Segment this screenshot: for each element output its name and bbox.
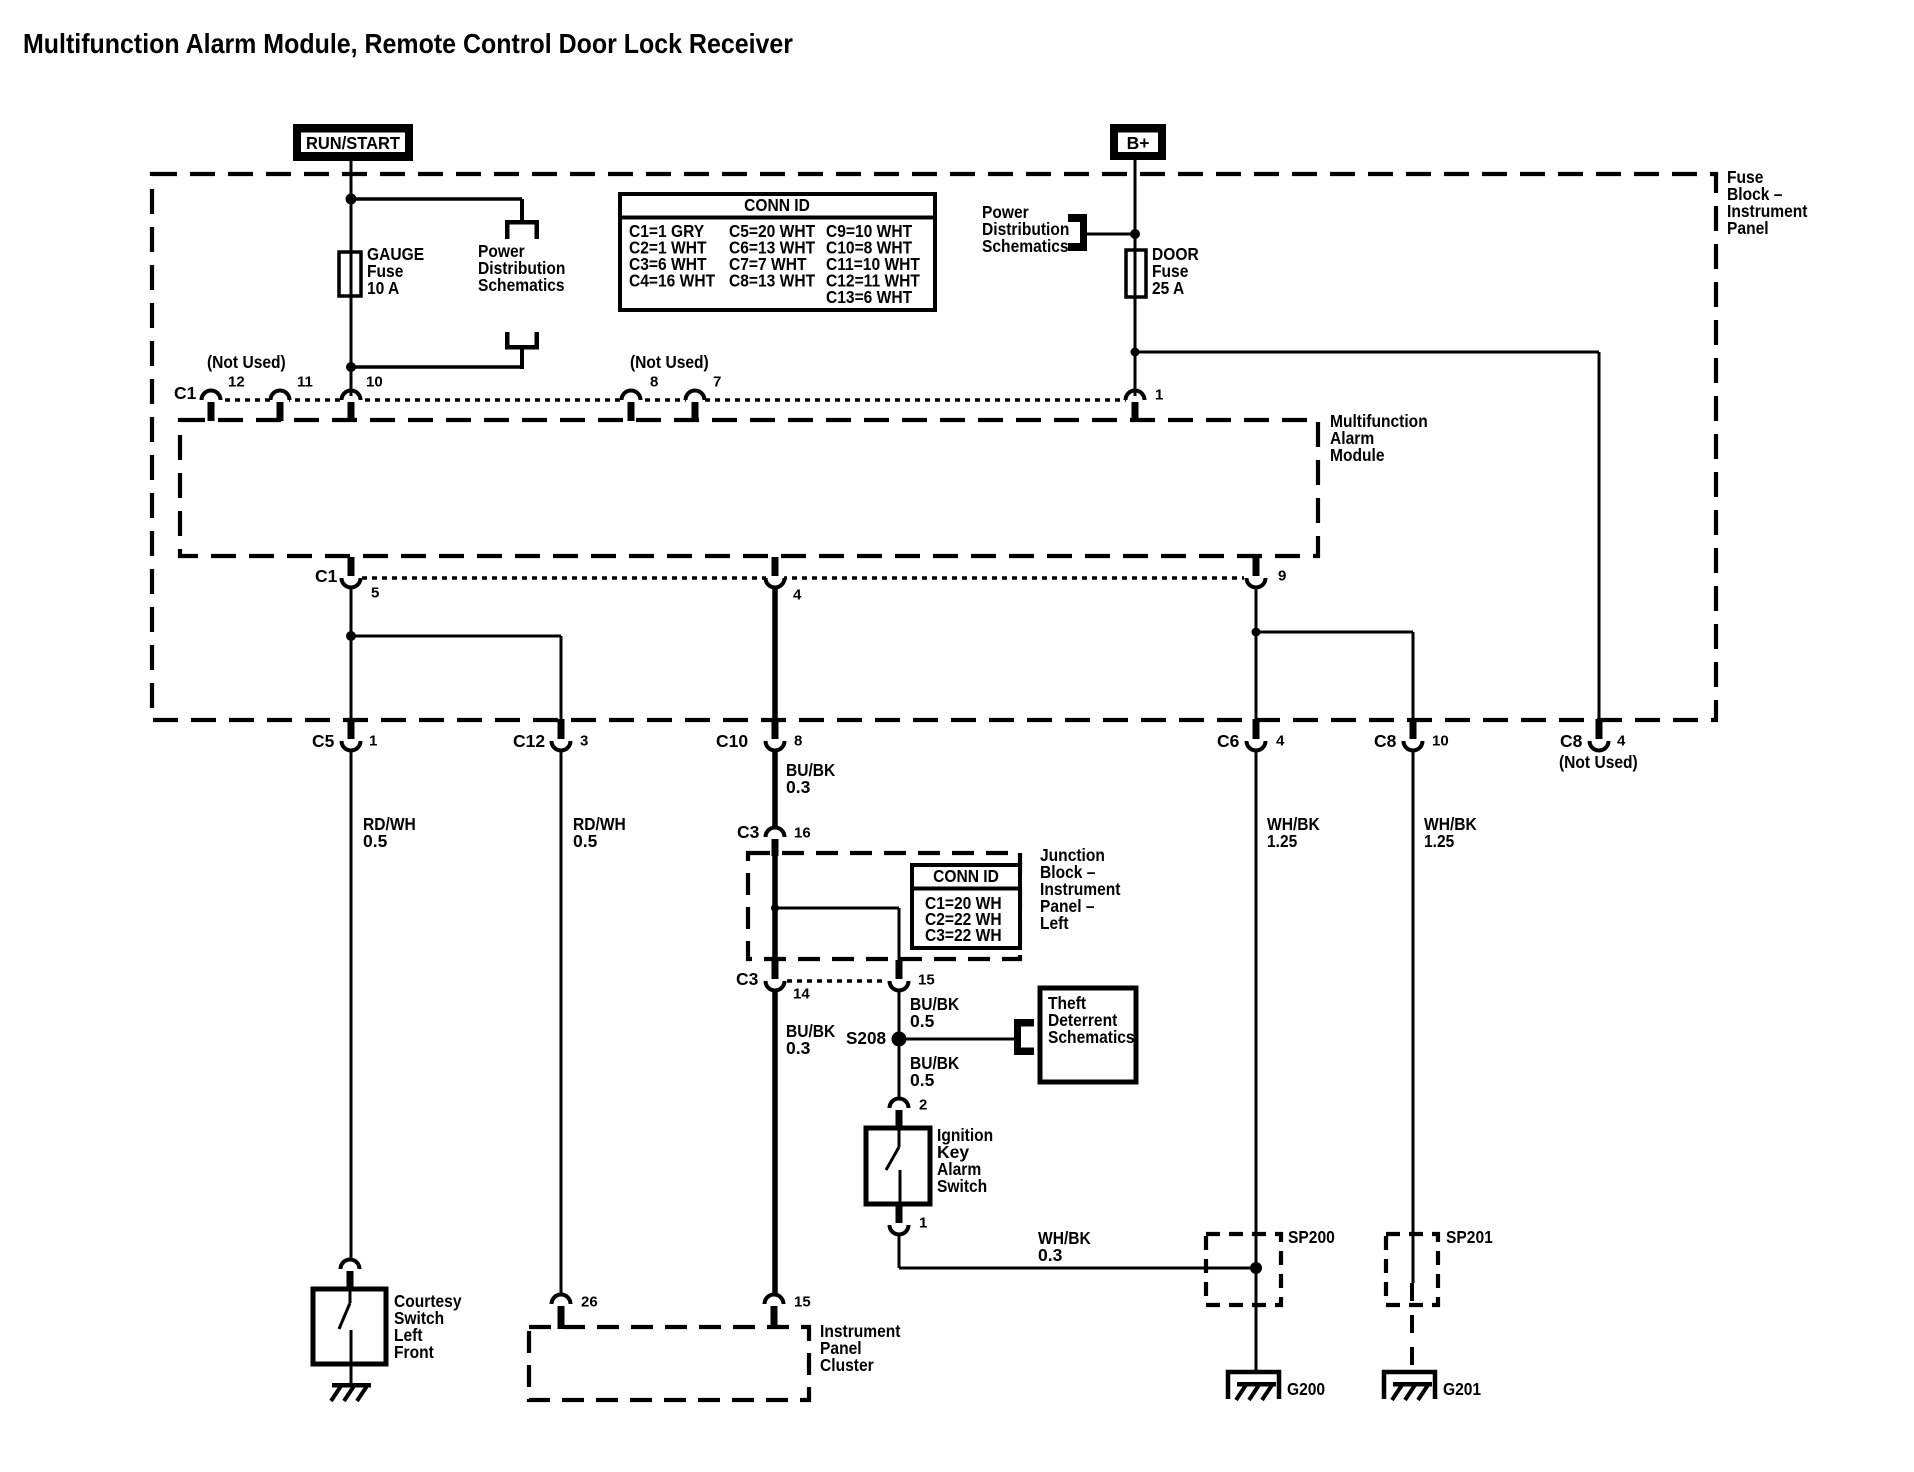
svg-text:1: 1 (1155, 386, 1163, 403)
wire C1-9 down to C6-4 (1255, 587, 1258, 720)
wire C12-3 down to cluster pin 26 (560, 749, 563, 1294)
ground (courtesy switch) (331, 1383, 371, 1401)
svg-text:C8=13 WHT: C8=13 WHT (729, 271, 815, 291)
svg-text:(Not Used): (Not Used) (630, 352, 709, 372)
svg-text:4: 4 (1276, 732, 1285, 749)
connector C8 pin 10 (1374, 719, 1449, 751)
svg-text:10: 10 (1432, 732, 1449, 749)
wire branch to power distribution (top) (351, 199, 524, 221)
ground G200 (1228, 1372, 1279, 1400)
connector C5 pin 1 (312, 719, 377, 751)
svg-text:12: 12 (228, 373, 245, 390)
svg-text:Panel: Panel (1727, 218, 1769, 238)
svg-text:Schematics: Schematics (478, 275, 565, 295)
svg-text:RUN/START: RUN/START (306, 133, 400, 153)
junction node on C1-9 wire (1252, 628, 1261, 637)
svg-text:C6: C6 (1217, 731, 1240, 751)
wire courtesy switch to ground (350, 1364, 353, 1385)
wire label RD/WH 0.5 (C12-3) (573, 814, 626, 851)
instrument panel cluster dashed box (529, 1327, 809, 1400)
label Junction Block - Instrument Panel - Left (1040, 845, 1121, 933)
junction node at gauge fuse bottom branch (346, 362, 356, 372)
label Multifunction Alarm Module (1330, 411, 1428, 465)
wire S208 to theft deterrent schematics (899, 1038, 1016, 1041)
connector C3 pin 15 (890, 960, 935, 991)
connector C1 pin 8 (622, 373, 659, 421)
svg-text:C3: C3 (736, 969, 759, 989)
svg-text:26: 26 (581, 1293, 598, 1310)
svg-text:Front: Front (394, 1342, 434, 1362)
connector C1 pin 5 (342, 557, 380, 601)
svg-text:C1: C1 (174, 383, 197, 403)
svg-text:9: 9 (1278, 567, 1286, 584)
half-connector fork to power distribution schematics (right) (1068, 214, 1087, 251)
fuse GAUGE 10A (339, 252, 361, 296)
wire label WH/BK 1.25 (C6-4) (1267, 814, 1320, 851)
svg-text:15: 15 (794, 1293, 811, 1310)
svg-text:0.3: 0.3 (786, 777, 811, 797)
wire branch to C12-3 (351, 636, 561, 720)
svg-text:Switch: Switch (937, 1176, 987, 1196)
svg-text:(Not Used): (Not Used) (207, 352, 286, 372)
wire C5-1 down to courtesy switch (350, 749, 353, 1259)
connector row C1 dotted line (module bottom) (362, 576, 1244, 580)
label Power Distribution Schematics (right) (982, 202, 1069, 256)
connector pin 1 (ignition key alarm switch) (890, 1205, 928, 1235)
svg-text:C10: C10 (716, 731, 748, 751)
junction node door fuse output (1131, 348, 1140, 357)
label Fuse Block - Instrument Panel (1727, 167, 1808, 238)
CONN ID table (fuse block) (620, 194, 935, 310)
svg-text:11: 11 (297, 373, 313, 390)
svg-text:B+: B+ (1127, 133, 1150, 153)
wire C3-15 down to splice S208 (898, 989, 901, 1039)
label Theft Deterrent Schematics (1048, 993, 1135, 1047)
svg-text:C8: C8 (1374, 731, 1397, 751)
label GAUGE Fuse 10 A (367, 244, 424, 298)
dashed wire SP201 to ground G201 (1410, 1283, 1414, 1372)
label Ignition Key Alarm Switch (937, 1125, 993, 1196)
CONN ID table (junction block) (912, 865, 1020, 948)
svg-text:C8: C8 (1560, 731, 1583, 751)
connector C1 pin 12 (202, 373, 245, 421)
svg-text:1: 1 (369, 732, 377, 749)
ground G201 (1384, 1372, 1435, 1400)
connector C10 pin 8 (716, 719, 802, 751)
wire door fuse output to C8 pin 4 (1135, 352, 1599, 720)
half-connector fork to power distribution schematics (upper) (505, 220, 539, 239)
wire label BU/BK 0.3 (C10-8) (786, 760, 836, 797)
wire label WH/BK 1.25 (C8-10) (1424, 814, 1477, 851)
wire branch inside junction block to C3-15 (775, 908, 899, 961)
svg-text:15: 15 (918, 971, 935, 988)
wire label RD/WH 0.5 (C5-1) (363, 814, 416, 851)
wire C8-10 down to splice SP201 (1412, 749, 1415, 1283)
svg-text:Module: Module (1330, 445, 1385, 465)
svg-text:CONN ID: CONN ID (933, 866, 999, 886)
svg-text:C3=22 WH: C3=22 WH (925, 925, 1002, 945)
connector row C3 dotted line (787, 979, 887, 983)
svg-text:C1: C1 (315, 566, 338, 586)
connector pin 2 (ignition key alarm switch) (890, 1096, 928, 1130)
connector pin (courtesy switch) (341, 1260, 360, 1270)
svg-text:(Not Used): (Not Used) (1559, 752, 1638, 772)
half-connector fork to power distribution schematics (lower) (505, 332, 539, 369)
wire branch to power distribution (bottom) (351, 365, 522, 369)
connector C1 pin 11 (271, 373, 313, 421)
label DOOR Fuse 25 A (1152, 244, 1199, 298)
svg-text:C3: C3 (737, 822, 760, 842)
svg-text:0.5: 0.5 (573, 831, 598, 851)
wire branch to C8-10 (1256, 632, 1413, 720)
wire S208 down to ignition key alarm switch pin 2 (898, 1046, 901, 1098)
connector pin 15 (instrument panel cluster) (765, 1293, 811, 1329)
junction node B+ to power distribution (1130, 229, 1140, 239)
label Instrument Panel Cluster (820, 1321, 901, 1375)
svg-text:SP201: SP201 (1446, 1227, 1493, 1247)
wire inside junction block (C3-16 to C3-14, thick) (772, 853, 778, 961)
svg-text:4: 4 (1617, 732, 1626, 749)
label Courtesy Switch Left Front (394, 1291, 462, 1362)
connector C1 pin 1 (1126, 386, 1164, 421)
connector C12 pin 3 (513, 719, 588, 751)
svg-text:C4=16 WHT: C4=16 WHT (629, 271, 715, 291)
svg-text:Cluster: Cluster (820, 1355, 874, 1375)
wire ignition switch pin 1 to splice SP200 (899, 1233, 1256, 1268)
svg-text:0.3: 0.3 (786, 1038, 811, 1058)
svg-text:Left: Left (1040, 913, 1069, 933)
svg-text:4: 4 (793, 586, 802, 603)
label Power Distribution Schematics (left) (478, 241, 565, 295)
splice SP200 dashed box (1206, 1234, 1281, 1305)
half-connector fork to theft deterrent schematics (1014, 1019, 1034, 1055)
svg-text:C13=6 WHT: C13=6 WHT (826, 287, 912, 307)
svg-text:0.5: 0.5 (363, 831, 388, 851)
power terminal RUN/START (297, 128, 410, 158)
wire B+ down to connector C1 pin 1 (1134, 160, 1137, 396)
svg-text:Multifunction Alarm Module, Re: Multifunction Alarm Module, Remote Contr… (23, 28, 793, 59)
svg-text:5: 5 (371, 584, 379, 601)
multifunction alarm module dashed box (180, 420, 1318, 556)
svg-text:1.25: 1.25 (1267, 831, 1298, 851)
svg-text:10 A: 10 A (367, 278, 400, 298)
svg-text:16: 16 (794, 824, 811, 841)
ignition key alarm switch contacts (886, 1130, 900, 1202)
svg-text:0.5: 0.5 (910, 1070, 935, 1090)
svg-text:1.25: 1.25 (1424, 831, 1455, 851)
junction node at gauge fuse top branch (346, 194, 357, 205)
splice SP201 dashed box (1386, 1234, 1438, 1305)
svg-text:1: 1 (919, 1214, 927, 1231)
svg-text:C12: C12 (513, 731, 545, 751)
connector pin 26 (instrument panel cluster) (552, 1293, 598, 1329)
svg-text:2: 2 (919, 1096, 927, 1113)
wire label WH/BK 0.3 (switch to SP200) (1038, 1228, 1091, 1265)
svg-text:G200: G200 (1287, 1379, 1325, 1399)
connector C1 pin 9 (1247, 557, 1287, 588)
svg-text:C5: C5 (312, 731, 335, 751)
splice S208 (846, 1028, 907, 1048)
wire power distribution fork to B+ wire (1087, 233, 1135, 236)
wire C3-14 down to cluster pin 15 (thick) (772, 989, 778, 1294)
fuse block - instrument panel dashed box (152, 174, 1716, 720)
connector C1 pin 4 (766, 557, 803, 603)
wire C6-4 down to ground G200 (1255, 749, 1258, 1372)
fuse DOOR 25A (1126, 250, 1146, 297)
wire C1-5 down to C5-1 (350, 587, 353, 720)
svg-text:Schematics: Schematics (1048, 1027, 1135, 1047)
junction node on C1-5 wire (346, 631, 356, 641)
svg-text:25 A: 25 A (1152, 278, 1185, 298)
junction node splice SP200 (1250, 1262, 1262, 1274)
connector row C1 dotted line (top) (205, 398, 1131, 402)
connector C8 pin 4 (not used) (1559, 719, 1638, 772)
svg-text:3: 3 (580, 732, 588, 749)
connector C6 pin 4 (1217, 719, 1285, 751)
svg-text:0.3: 0.3 (1038, 1245, 1063, 1265)
wire C1-4 down to C10-8 (thick) (772, 587, 778, 720)
svg-text:S208: S208 (846, 1028, 886, 1048)
svg-text:14: 14 (793, 985, 810, 1002)
wire label BU/BK 0.3 (C3-14) (786, 1021, 836, 1058)
svg-text:CONN ID: CONN ID (744, 195, 810, 215)
svg-text:SP200: SP200 (1288, 1227, 1335, 1247)
connector C1 pin 10 (342, 373, 383, 421)
junction block - instrument panel left dashed box (748, 853, 1020, 959)
ignition key alarm switch box (866, 1128, 930, 1204)
wire C10-8 down to C3-16 (thick) (772, 749, 778, 827)
svg-text:8: 8 (650, 373, 658, 390)
connector C3 pin 14 (736, 960, 810, 1002)
svg-text:Schematics: Schematics (982, 236, 1069, 256)
svg-text:8: 8 (794, 732, 802, 749)
courtesy switch left front box (313, 1289, 386, 1364)
connector C3 pin 16 (737, 822, 811, 856)
courtesy switch contacts (339, 1291, 351, 1362)
wire RUN/START down to connector C1 pin 10 (350, 161, 353, 396)
svg-text:10: 10 (366, 373, 383, 390)
power terminal B+ (1114, 128, 1163, 157)
wire label BU/BK 0.5 (above S208) (910, 994, 960, 1031)
svg-text:G201: G201 (1443, 1379, 1481, 1399)
svg-text:0.5: 0.5 (910, 1011, 935, 1031)
wire label BU/BK 0.5 (below S208) (910, 1053, 960, 1090)
connector C1 pin 7 (686, 373, 722, 421)
junction node inside junction block (771, 904, 779, 912)
theft deterrent schematics box (1040, 988, 1136, 1082)
svg-text:7: 7 (713, 373, 721, 390)
